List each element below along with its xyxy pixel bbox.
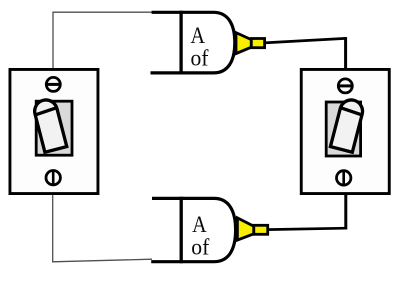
svg-text:of: of (191, 235, 209, 260)
wire bottom-left vertical (52, 194, 54, 262)
S2 top screw (338, 79, 352, 93)
wire top-left horizontal (52, 11, 152, 13)
svg-text:A: A (191, 23, 206, 48)
U1 input stub top (152, 11, 181, 14)
U1 body (181, 12, 235, 73)
S2 plate (301, 69, 389, 193)
AND gate U1 (top) (151, 11, 235, 75)
S1 plate (10, 69, 98, 193)
AND gate U2 (bottom) (151, 197, 235, 263)
indicator horn H2 (bottom, yellow) (237, 218, 267, 240)
wire top-right horizontal (sloped) (264, 38, 346, 43)
switch S1 (left) (10, 69, 98, 193)
wire bottom-right vertical (344, 194, 347, 230)
S2 recess (326, 102, 360, 156)
S2 bottom screw (337, 171, 351, 185)
svg-text:of: of (191, 45, 209, 70)
svg-text:A: A (192, 212, 207, 237)
U2 input bar (180, 197, 183, 263)
indicator horn H1 (top, yellow) (236, 33, 265, 54)
U2 body (181, 198, 235, 261)
wire top-left vertical (52, 12, 54, 69)
S1 toggle lever (32, 98, 67, 153)
wire bottom-left horizontal (52, 259, 152, 262)
S2 toggle lever (330, 98, 365, 153)
U2 input stub bottom (151, 260, 181, 263)
U2 input stub top (152, 197, 181, 200)
S1 bottom screw (46, 171, 60, 185)
S1 top screw (46, 77, 60, 91)
U1 input stub bottom (151, 71, 182, 74)
switch S2 (right, mirrored) (301, 69, 389, 193)
S1 recess (36, 101, 72, 155)
wire bottom-right horizontal (267, 228, 346, 229)
wire top-right vertical (344, 37, 347, 69)
U1 input bar (179, 11, 182, 75)
